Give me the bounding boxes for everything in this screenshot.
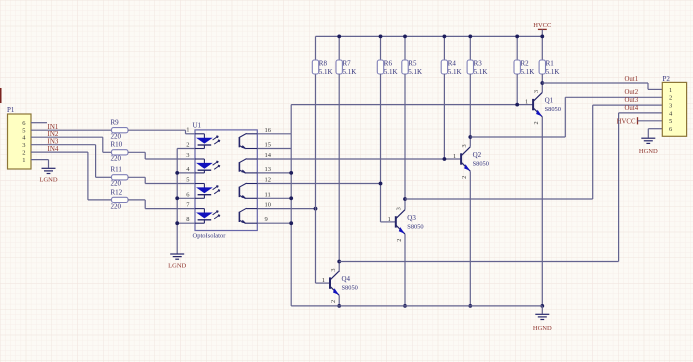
U1 phototransistor channel 4	[239, 208, 257, 223]
U1 pin 1 number	[186, 127, 189, 134]
wire: R8 vertical down to Q4 base	[316, 74, 331, 283]
svg-text:5.1K: 5.1K	[546, 68, 560, 76]
wire Out4: Q4 collector node to P2 pin 4	[339, 113, 662, 262]
U1 pin 12 number	[265, 177, 272, 184]
P1 pin 1 number	[22, 157, 25, 164]
svg-text:12: 12	[265, 177, 272, 184]
ground LGND (below U1)	[168, 254, 186, 270]
svg-text:14: 14	[265, 152, 272, 159]
svg-text:3: 3	[396, 207, 403, 210]
svg-text:11: 11	[265, 191, 271, 198]
svg-text:2: 2	[461, 176, 468, 179]
junction R6 / HVCC bus	[379, 35, 383, 39]
resistor R10 (220)	[111, 141, 129, 163]
svg-text:3: 3	[461, 144, 468, 147]
wire - clipped dark red segment at left edge	[0, 88, 2, 103]
svg-text:R3: R3	[474, 59, 483, 67]
wire: U1 pin 16 to Q1 base line riser	[257, 105, 291, 134]
transistor Q3 (S8050)	[396, 210, 424, 234]
svg-text:3: 3	[330, 268, 337, 271]
wire: Q2 collector up to Out2 node	[469, 137, 471, 147]
net label IN1	[48, 123, 59, 131]
U1 pin 10 number	[265, 202, 272, 209]
U1 phototransistor channel 3	[239, 183, 257, 199]
U1 LED channel 1	[195, 134, 220, 149]
svg-text:R7: R7	[343, 59, 352, 67]
wire Out3: Q3 collector node to P2 pin 3	[405, 105, 662, 199]
svg-text:Q3: Q3	[407, 214, 416, 222]
svg-text:Q2: Q2	[473, 151, 482, 159]
svg-text:8: 8	[186, 216, 189, 223]
wire: R5 down to Q3 collector node	[404, 74, 406, 199]
svg-text:2: 2	[396, 239, 403, 242]
svg-text:S8050: S8050	[407, 224, 423, 231]
svg-text:S8050: S8050	[342, 285, 358, 292]
wire: R1 down to Q1 collector node	[541, 74, 543, 83]
U1 LED channel 2	[195, 159, 220, 173]
svg-text:5.1K: 5.1K	[319, 68, 333, 76]
junction at U1 pin 4	[175, 171, 179, 175]
wire: Q1 base line from riser to Q1	[291, 104, 533, 106]
P2 pin 5 number	[669, 118, 672, 125]
transistor Q4 (S8050)	[330, 271, 358, 295]
net label Out4	[625, 105, 639, 112]
junction at pin 9 / bus	[289, 221, 293, 225]
resistor R5 (5.1K)	[402, 36, 422, 76]
U1 phototransistor channel 1	[239, 133, 257, 148]
junction R7 / HVCC bus	[337, 35, 341, 39]
net label IN4	[48, 145, 59, 153]
net label IN3	[48, 138, 59, 146]
resistor R12 (220)	[111, 188, 129, 210]
svg-text:LGND: LGND	[168, 263, 186, 270]
U1 pin 4 number	[186, 166, 190, 173]
svg-text:1: 1	[22, 157, 25, 164]
U1 pin 8 number	[186, 216, 189, 223]
Q2 pin 3 number	[461, 144, 468, 147]
resistor R8 (5.1K)	[312, 36, 332, 76]
U1 phototransistor channel 2	[239, 159, 257, 174]
wire Out1: Q1 collector node to P2 pin 1	[542, 83, 662, 89]
svg-text:2: 2	[22, 150, 25, 157]
junction pin10/R8	[314, 207, 318, 211]
resistor R3 (5.1K)	[467, 36, 487, 76]
wire: HVCC top bus	[316, 35, 543, 37]
transistor Q2 (S8050)	[461, 147, 489, 171]
net label Out3	[625, 97, 639, 104]
svg-text:Out3: Out3	[625, 97, 639, 104]
svg-text:5.1K: 5.1K	[448, 68, 462, 76]
junction R6/pin12	[379, 182, 383, 186]
wire: U1 pin 13 stub to emitter bus	[257, 172, 291, 174]
svg-text:5.1K: 5.1K	[521, 68, 535, 76]
Q1 pin 1 number	[525, 99, 528, 106]
svg-text:U1: U1	[193, 121, 202, 129]
U1 pin 15 number	[265, 142, 272, 149]
wire: Q4 collector up to Out4 node	[338, 262, 340, 272]
svg-text:5.1K: 5.1K	[343, 68, 357, 76]
svg-text:9: 9	[265, 216, 268, 223]
junction at pin 13 / bus	[289, 171, 293, 175]
svg-text:1: 1	[525, 99, 528, 106]
svg-text:220: 220	[111, 202, 122, 210]
junction R2/base line	[515, 103, 519, 107]
svg-text:Q4: Q4	[342, 275, 351, 283]
wire Out2: Q2 collector node to P2 pin 2	[470, 97, 662, 137]
junction Out1 node	[540, 81, 544, 85]
Q3 pin 1 number	[388, 216, 391, 223]
net label IN2	[48, 130, 59, 138]
junction Q2 emitter / ground bus	[468, 304, 472, 308]
wire: P2 pin 6 to HGND	[648, 129, 662, 138]
svg-text:5: 5	[186, 177, 189, 184]
svg-text:3: 3	[186, 152, 189, 159]
junction R1 / HVCC bus	[540, 35, 544, 39]
wire: Q4 emitter down to ground bus	[338, 295, 340, 306]
svg-text:R10: R10	[111, 141, 123, 149]
resistor R6 (5.1K)	[377, 36, 397, 76]
wire: Q3 emitter down to ground bus	[404, 234, 406, 306]
ground HGND (at P2)	[639, 138, 658, 155]
junction Q1 emitter / ground bus	[540, 304, 544, 308]
junction Q3 emitter / ground bus	[403, 304, 407, 308]
wire: Q3 collector up to Out3 node	[404, 199, 406, 210]
svg-text:1: 1	[453, 153, 456, 160]
svg-text:10: 10	[265, 202, 272, 209]
Q3 pin 3 number	[396, 207, 403, 210]
svg-text:2: 2	[533, 121, 540, 124]
wire: R6 down to pin12 line	[380, 74, 382, 184]
svg-text:3: 3	[22, 142, 25, 149]
junction R4/base line	[443, 157, 447, 161]
P1 pin 5 number	[22, 128, 25, 135]
junction at U1 pin 6	[175, 196, 179, 200]
resistor R4 (5.1K)	[441, 36, 461, 76]
Q4 pin 3 number	[330, 268, 337, 271]
svg-text:220: 220	[111, 133, 122, 141]
svg-text:HGND: HGND	[639, 148, 658, 155]
U1 LED channel 4	[195, 209, 220, 224]
junction Out2 node	[468, 135, 472, 139]
svg-text:R12: R12	[111, 188, 123, 196]
junction R4 / HVCC bus	[443, 35, 447, 39]
junction at U1 pin 8	[175, 221, 179, 225]
svg-text:P1: P1	[7, 106, 15, 114]
wire: P1 pin1 to LGND	[31, 160, 49, 168]
svg-text:1: 1	[322, 277, 325, 284]
svg-text:5.1K: 5.1K	[408, 68, 422, 76]
U1 pin 11 number	[265, 191, 271, 198]
connector P2	[662, 75, 686, 137]
U1 pin 14 number	[265, 152, 272, 159]
svg-text:S8050: S8050	[473, 161, 489, 168]
wire: U1 pin 14 to Q2 base	[257, 158, 461, 160]
svg-text:16: 16	[265, 127, 272, 134]
svg-text:3: 3	[669, 103, 672, 110]
U1 pin 13 number	[265, 166, 272, 173]
svg-text:R11: R11	[111, 166, 123, 174]
svg-text:R1: R1	[546, 59, 555, 67]
wire: U1 pin 12 to R6 junction and down to Q3 base	[257, 184, 396, 222]
wire: emitter bus down to ground bus	[290, 134, 292, 306]
svg-text:5.1K: 5.1K	[474, 68, 488, 76]
Q1 pin 3 number	[533, 90, 540, 93]
junction R3 / HVCC bus	[468, 35, 472, 39]
svg-text:Out2: Out2	[625, 89, 639, 96]
svg-text:OptoIsolator: OptoIsolator	[193, 233, 227, 240]
resistor R11 (220)	[111, 166, 129, 188]
junction Out3 node	[403, 197, 407, 201]
wire IN1: P1 pin5 to R9	[31, 129, 112, 131]
svg-text:1: 1	[186, 127, 189, 134]
wire: U1 pin 10 to R8 junction	[257, 208, 315, 210]
svg-text:P2: P2	[663, 75, 671, 83]
net label Out2	[625, 89, 639, 96]
svg-text:3: 3	[533, 90, 540, 93]
Q2 pin 1 number	[453, 153, 456, 160]
svg-text:5: 5	[669, 118, 672, 125]
net label Out1	[625, 76, 639, 83]
svg-text:R8: R8	[319, 59, 328, 67]
wire: U1 cathode bus (pins 2,4,6,8) to LGND	[177, 149, 195, 254]
svg-text:5.1K: 5.1K	[384, 68, 398, 76]
svg-text:2: 2	[186, 142, 189, 149]
Q3 pin 2 number	[396, 239, 403, 242]
wire: Q1 collector up to Out1 node	[541, 83, 543, 92]
svg-text:R9: R9	[111, 118, 120, 126]
svg-text:2: 2	[669, 95, 672, 102]
wire: U1 pin 15 stub to emitter bus	[257, 148, 291, 150]
junction R2 / HVCC bus	[515, 35, 519, 39]
U1 pin 6 number	[186, 191, 190, 198]
svg-text:15: 15	[265, 142, 272, 149]
wire: U1 pin 9 stub to emitter bus	[257, 222, 291, 224]
P1 pin 2 number	[22, 150, 25, 157]
U1 pin 9 number	[265, 216, 268, 223]
svg-text:LGND: LGND	[39, 177, 57, 184]
svg-text:2: 2	[330, 300, 337, 303]
Q4 pin 1 number	[322, 277, 325, 284]
ground HGND (bottom)	[533, 306, 552, 332]
svg-text:S8050: S8050	[545, 106, 561, 113]
U1 pin 7 number	[186, 202, 190, 209]
svg-text:HVCC: HVCC	[617, 118, 636, 125]
junction Out4 node	[337, 260, 341, 264]
svg-text:1: 1	[388, 216, 391, 223]
power port HVCC (at P2 pin 5)	[617, 117, 663, 125]
wire: R9 to U1 pin 1	[128, 130, 195, 134]
wire: R3 down to Q2 collector node	[469, 74, 471, 137]
P1 pin 4 number	[22, 135, 26, 142]
P2 pin 2 number	[669, 95, 672, 102]
wire: R2 down to Q1 base line	[516, 74, 518, 105]
svg-text:13: 13	[265, 166, 272, 173]
resistor R2 (5.1K)	[514, 36, 534, 76]
svg-text:HVCC: HVCC	[533, 22, 551, 29]
svg-text:R4: R4	[448, 59, 457, 67]
U1 pin 2 number	[186, 142, 189, 149]
P2 pin 1 number	[669, 87, 672, 94]
junction R5 / HVCC bus	[403, 35, 407, 39]
svg-text:Out4: Out4	[625, 105, 639, 112]
P2 pin 4 number	[669, 110, 673, 117]
P1 pin 3 number	[22, 142, 25, 149]
Q2 pin 2 number	[461, 176, 468, 179]
connector P1	[7, 106, 31, 169]
wire: R4 down to Q2 base line	[443, 74, 445, 159]
resistor R1 (5.1K)	[539, 36, 559, 76]
P1 pin 6 number	[22, 120, 26, 127]
power port HVCC (top)	[533, 22, 551, 36]
svg-text:220: 220	[111, 155, 122, 163]
wire IN2: P1 pin4 to R10	[31, 137, 112, 152]
wire: U1 pin 11 stub to emitter bus	[257, 197, 291, 199]
wire IN4: P1 pin2 to R12	[31, 152, 112, 200]
transistor Q1 (S8050)	[533, 92, 561, 116]
svg-text:220: 220	[111, 180, 122, 188]
P2 pin 3 number	[669, 103, 672, 110]
wire: R11 to U1 pin 5	[128, 177, 195, 183]
svg-text:5: 5	[22, 128, 25, 135]
svg-text:R2: R2	[521, 59, 530, 67]
svg-text:1: 1	[669, 87, 672, 94]
P2 pin 6 number	[669, 126, 673, 133]
svg-text:R6: R6	[384, 59, 393, 67]
wire: R7 down to Q4 collector node	[338, 74, 340, 262]
U1 pin 16 number	[265, 127, 272, 134]
U1 pin 5 number	[186, 177, 189, 184]
svg-text:Out1: Out1	[625, 76, 639, 83]
U1 LED channel 3	[195, 184, 220, 199]
Q4 pin 2 number	[330, 300, 337, 303]
resistor R9 (220)	[111, 118, 129, 140]
wire: R10 to U1 pin 3	[128, 152, 195, 159]
P1 pin 6 stub wire (unconnected)	[31, 122, 47, 124]
wire: R12 to U1 pin 7	[128, 200, 195, 209]
Q1 pin 2 number	[533, 121, 540, 124]
op-isolator U1 body	[193, 121, 258, 239]
wire: Q1 emitter down to ground bus	[541, 117, 543, 306]
wire: bottom ground bus	[291, 305, 542, 307]
junction at pin 11 / bus	[289, 196, 293, 200]
junction Q4 emitter / ground bus	[337, 304, 341, 308]
ground LGND (at P1)	[39, 168, 57, 183]
resistor R7 (5.1K)	[336, 36, 356, 76]
svg-text:R5: R5	[408, 59, 417, 67]
svg-text:Q1: Q1	[545, 97, 554, 105]
svg-text:HGND: HGND	[533, 325, 552, 332]
wire: Q2 emitter down to ground bus	[469, 171, 471, 306]
U1 pin 3 number	[186, 152, 189, 159]
wire IN3: P1 pin3 to R11	[31, 145, 112, 178]
